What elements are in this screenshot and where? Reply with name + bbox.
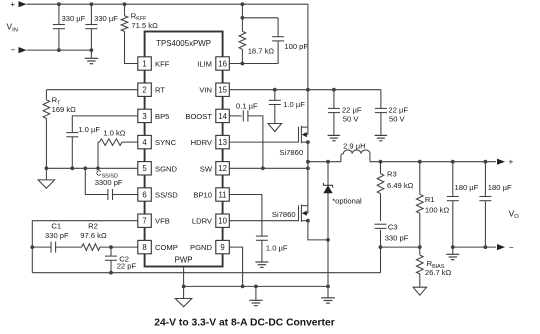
junction VIN+ rail / Cin2: [90, 2, 94, 6]
ground BP10 cap: [255, 262, 268, 267]
pin 6 box: [138, 188, 152, 201]
ground SGND: [38, 168, 55, 188]
label R3 value: [387, 181, 414, 190]
pin label ILIM: [197, 60, 212, 69]
svg-text:Si7860: Si7860: [279, 148, 303, 157]
resistor R2 97.6k: [82, 244, 138, 251]
wire RT pin2: [46, 90, 137, 100]
node VOUT- arrow: [497, 243, 514, 252]
wire inductor to output: [370, 161, 496, 163]
pin label SS/SD: [155, 191, 178, 200]
capacitor Cbulk1 22uF: [328, 90, 340, 136]
junction ILIM/RILIM: [241, 62, 245, 66]
svg-text:SGND: SGND: [155, 164, 177, 173]
label L1 2.9uH: [343, 141, 366, 150]
svg-text:HDRV: HDRV: [191, 138, 213, 147]
ground VOUT-: [446, 247, 459, 260]
inductor L1 2.9uH: [341, 150, 370, 162]
label RKFF value: [131, 21, 158, 30]
pin number 14: [218, 112, 227, 121]
pin number 9: [220, 243, 224, 252]
ground RBIAS: [413, 287, 427, 295]
op-amp U1 TPS4005xPWP body: [145, 32, 223, 267]
wire SYNC pin4: [122, 141, 138, 143]
pin 8 box: [138, 240, 152, 253]
svg-text:100 kΩ: 100 kΩ: [425, 206, 450, 215]
diode D1 Schottky optional: [323, 183, 332, 286]
junction VIN/bypass: [273, 88, 277, 92]
label RT value: [52, 105, 77, 114]
pin number 4: [142, 138, 147, 147]
pin 4 box: [138, 135, 152, 148]
label U1 PWP pad: [175, 255, 193, 264]
pin 3 box: [138, 109, 152, 122]
pin label BOOST: [185, 112, 212, 121]
label C1: [51, 221, 61, 230]
pin 15 box: [216, 83, 230, 96]
pin number 12: [218, 164, 227, 173]
wire VOUT- line: [453, 246, 496, 248]
pin 10 box: [216, 214, 230, 227]
svg-text:22 pF: 22 pF: [117, 261, 137, 270]
junction VOUT-/Cout2: [484, 245, 488, 249]
label RBIAS value: [425, 268, 452, 277]
resistor SYNC 1.0k: [98, 139, 122, 169]
label C3: [388, 223, 398, 232]
pin number 3: [142, 112, 146, 121]
svg-text:KFF: KFF: [155, 60, 170, 69]
svg-text:4: 4: [142, 138, 147, 147]
ground input rail: [85, 50, 99, 64]
node VIN- terminal: [11, 45, 27, 54]
pin 13 box: [216, 135, 230, 148]
wire BP10 pin11: [229, 195, 262, 237]
svg-text:6: 6: [142, 190, 146, 199]
label Cout1 180uF: [455, 183, 479, 192]
svg-text:169 kΩ: 169 kΩ: [52, 105, 77, 114]
svg-text:SS/SD: SS/SD: [155, 191, 178, 200]
svg-text:1.0 kΩ: 1.0 kΩ: [103, 128, 125, 137]
ground power line tap: [249, 286, 262, 305]
svg-text:−: −: [11, 45, 16, 54]
svg-text:−: −: [509, 243, 514, 252]
svg-text:8: 8: [142, 243, 146, 252]
svg-text:BP5: BP5: [155, 112, 169, 121]
label RKFF: [131, 11, 147, 22]
svg-text:BOOST: BOOST: [185, 112, 212, 121]
junction feedback/R1-RBIAS: [418, 245, 422, 249]
junction pad/ground line: [182, 285, 186, 289]
label RBIAS: [427, 259, 445, 270]
wire SW to inductor: [308, 161, 341, 163]
wire SW pin12: [229, 167, 308, 169]
svg-text:180 µF: 180 µF: [488, 183, 512, 192]
ground Cbulk2: [375, 135, 388, 140]
label RILIM 18.7k: [248, 46, 275, 55]
junction VIN/22uF-1: [332, 88, 336, 92]
label R2 value: [80, 231, 107, 240]
junction R2 / C2: [109, 245, 113, 249]
capacitor CSS/SD 3300pF: [85, 168, 138, 200]
label C2: [119, 254, 129, 263]
svg-text:3300 pF: 3300 pF: [95, 178, 123, 187]
ground PWP pad: [175, 286, 192, 306]
junction SGND/SYNCres: [96, 166, 100, 170]
svg-text:VIN: VIN: [199, 86, 212, 95]
svg-text:2: 2: [142, 86, 146, 95]
wire LDRV pin10: [229, 220, 298, 222]
label VO: [509, 208, 520, 220]
wire VIN- rail: [27, 49, 92, 51]
pin label BP5: [155, 112, 169, 121]
pin 1 box: [138, 57, 152, 70]
pin label VFB: [155, 217, 170, 226]
pin number 2: [142, 86, 146, 95]
junction output/Cout2: [484, 160, 488, 164]
junction VIN- rail / Cin2 ground: [90, 48, 94, 52]
resistor R3 6.49k: [377, 162, 384, 221]
resistor RBIAS 26.7k: [417, 247, 424, 287]
junction output/Cout1: [451, 160, 455, 164]
svg-text:71.5 kΩ: 71.5 kΩ: [131, 21, 158, 30]
wire feedback node: [381, 246, 420, 248]
svg-text:R1: R1: [425, 195, 435, 204]
junction output/R1: [418, 160, 422, 164]
pin 7 box: [138, 214, 152, 227]
svg-text:0.1 µF: 0.1 µF: [236, 102, 258, 111]
svg-text:Si7860: Si7860: [272, 210, 296, 219]
label C3 value: [385, 233, 409, 242]
svg-text:180 µF: 180 µF: [455, 183, 479, 192]
svg-text:6.49 kΩ: 6.49 kΩ: [387, 181, 414, 190]
pin 9 box: [216, 240, 230, 253]
resistor RILIM 18.7k: [239, 4, 246, 63]
svg-text:RT: RT: [155, 86, 165, 95]
pin 5 box: [138, 162, 152, 175]
label VIN: [7, 22, 18, 34]
junction SGND/RT: [45, 166, 49, 170]
junction VIN- rail / Cin1: [57, 48, 61, 52]
wire SGND row: [46, 167, 137, 169]
svg-text:12: 12: [218, 164, 227, 173]
svg-text:+: +: [10, 0, 15, 9]
label Cbulk1 50V: [343, 114, 360, 123]
wire VIN+ rail drop: [307, 4, 309, 90]
pin label HDRV: [191, 138, 213, 147]
svg-text:1.0 µF: 1.0 µF: [78, 125, 100, 134]
label Cbulk2 22uF: [388, 106, 408, 115]
wire VIN pin15 row: [229, 89, 381, 91]
wire ILIM pin16: [229, 63, 278, 65]
pin label COMP: [155, 243, 178, 252]
junction VIN+ rail / Cin1: [57, 2, 61, 6]
label Q1 Si7860: [279, 148, 303, 157]
svg-text:1: 1: [142, 59, 146, 68]
wire SW drop to Q2: [307, 162, 309, 206]
ground Cbulk1: [328, 135, 341, 140]
label CILIM 100pF: [284, 42, 308, 51]
wire VIN+ rail: [27, 3, 308, 5]
pin label SW: [200, 164, 213, 173]
svg-text:TPS4005xPWP: TPS4005xPWP: [156, 39, 211, 48]
junction output/R3: [379, 160, 383, 164]
svg-text:330 pF: 330 pF: [45, 231, 69, 240]
capacitor Cout2 180uF: [479, 162, 491, 247]
junction SW pin row: [306, 166, 310, 170]
wire BP5 pin3: [72, 116, 138, 133]
capacitor C3 330pF: [375, 224, 387, 247]
svg-text:26.7 kΩ: 26.7 kΩ: [425, 268, 452, 277]
capacitor Cbulk2 22uF: [375, 90, 387, 136]
wire PWP pad: [183, 267, 185, 287]
wire power ground line: [184, 285, 328, 287]
capacitor BP5 1.0uF: [66, 133, 78, 169]
svg-text:10: 10: [218, 217, 227, 226]
capacitor BOOST 0.1uF: [243, 110, 263, 168]
pin number 1: [142, 59, 146, 68]
junction VIN/raildrop: [306, 88, 310, 92]
svg-text:13: 13: [218, 138, 227, 147]
svg-text:330 µF: 330 µF: [94, 14, 118, 23]
svg-text:97.6 kΩ: 97.6 kΩ: [80, 231, 107, 240]
svg-text:5: 5: [142, 164, 147, 173]
pin label RT: [155, 86, 165, 95]
pin label LDRV: [192, 217, 213, 226]
label BP5 cap 1.0uF: [78, 125, 100, 134]
node VIN+ terminal: [10, 0, 26, 9]
junction C3/feedback node: [379, 245, 383, 249]
svg-text:11: 11: [219, 190, 227, 199]
capacitor CILIM 100pF: [272, 18, 284, 64]
label Q2 Si7860: [272, 210, 296, 219]
capacitor Cout1 180uF: [447, 162, 459, 247]
label Cin1 330uF: [62, 14, 86, 23]
pin number 16: [218, 59, 227, 68]
label CSS/SD: [96, 169, 118, 180]
capacitor VIN bypass 1.0uF: [269, 90, 281, 124]
wire VFB pin7: [32, 221, 138, 273]
transistor Q1 Si7860 high-side: [299, 126, 310, 144]
label R1: [425, 195, 435, 204]
wire Q1 source to SW node: [307, 142, 309, 162]
ground FET source: [321, 286, 335, 303]
junction diode/SW line: [326, 160, 330, 164]
label C2 value: [117, 261, 137, 270]
label R2: [88, 221, 98, 230]
junction C2 / feedback line: [109, 271, 113, 275]
svg-text:22 µF: 22 µF: [388, 106, 408, 115]
transistor Q2 Si7860 low-side: [299, 204, 310, 222]
label R3: [387, 170, 397, 179]
junction RILIM/100pF top: [241, 16, 245, 20]
capacitor Cin2 330uF: [85, 4, 97, 50]
label U1 TPS4005xPWP: [156, 39, 211, 48]
junction FET-source/ground line: [326, 285, 330, 289]
label BOOST cap 0.1uF: [236, 102, 258, 111]
pin label SYNC: [155, 138, 177, 147]
svg-text:BP10: BP10: [193, 191, 212, 200]
capacitor C2 22pF: [105, 247, 117, 273]
svg-text:9: 9: [220, 243, 224, 252]
svg-text:PWP: PWP: [175, 255, 193, 264]
junction VIN+ rail / RKFF: [123, 2, 127, 6]
svg-text:50 V: 50 V: [343, 114, 360, 123]
svg-text:7: 7: [142, 217, 146, 226]
junction SGND/CSS: [83, 166, 87, 170]
svg-text:LDRV: LDRV: [192, 217, 213, 226]
svg-text:*optional: *optional: [332, 196, 362, 205]
pin number 6: [142, 190, 146, 199]
capacitor BP10 1.0uF: [256, 236, 268, 262]
svg-text:50 V: 50 V: [389, 114, 406, 123]
junction VIN+ rail / RILIM: [241, 2, 245, 6]
svg-text:15: 15: [218, 86, 227, 95]
wire HDRV pin13: [229, 141, 298, 143]
label R1 value: [425, 206, 450, 215]
junction VFB-left / C1 row: [30, 245, 34, 249]
svg-text:100 pF: 100 pF: [284, 42, 308, 51]
pin 2 box: [138, 83, 152, 96]
svg-text:1.0 µF: 1.0 µF: [283, 100, 305, 109]
pin number 10: [218, 217, 227, 226]
pin 11 box: [216, 188, 230, 201]
junction SGND/BP5cap: [70, 166, 74, 170]
resistor R1 100k: [417, 162, 424, 247]
junction Q2 source/diode: [326, 238, 330, 242]
wire Q1 drain to VIN: [307, 90, 309, 127]
pin number 8: [142, 243, 146, 252]
wire 100pF top: [242, 17, 278, 19]
label VIN bypass 1.0uF: [283, 100, 305, 109]
label Cout2 180uF: [488, 183, 512, 192]
pin 16 box: [216, 57, 230, 70]
junction VOUT-/Cout1 ground: [451, 245, 455, 249]
wire feedback line: [32, 247, 380, 273]
svg-text:COMP: COMP: [155, 243, 178, 252]
node VOUT+ arrow: [497, 157, 514, 166]
label diode optional: [332, 196, 362, 205]
wire diode top: [327, 162, 329, 186]
svg-text:3: 3: [142, 112, 146, 121]
pin 12 box: [216, 162, 230, 175]
label Cbulk2 50V: [389, 114, 406, 123]
label BP10 cap 1.0uF: [266, 244, 288, 253]
junction SW/inductor line: [306, 160, 310, 164]
pin number 15: [218, 86, 227, 95]
pin label VIN: [199, 86, 212, 95]
label CSS value 3300pF: [95, 178, 123, 187]
svg-text:R3: R3: [387, 170, 397, 179]
junction PGND/ground line: [241, 285, 245, 289]
pin number 7: [142, 217, 146, 226]
pin number 5: [142, 164, 147, 173]
svg-text:2.9 µH: 2.9 µH: [343, 141, 366, 150]
svg-text:18.7 kΩ: 18.7 kΩ: [248, 46, 275, 55]
svg-text:+: +: [509, 157, 514, 166]
resistor RT 169k: [43, 100, 50, 169]
ground VIN bypass: [268, 124, 282, 132]
svg-text:1.0 µF: 1.0 µF: [266, 244, 288, 253]
pin label PGND: [190, 243, 212, 252]
svg-text:ILIM: ILIM: [197, 60, 212, 69]
svg-text:24-V to 3.3-V at 8-A DC-DC Con: 24-V to 3.3-V at 8-A DC-DC Converter: [154, 318, 334, 329]
label Cbulk1 22uF: [342, 106, 362, 115]
label RT: [52, 96, 61, 107]
svg-text:SYNC: SYNC: [155, 138, 177, 147]
capacitor C1 330pF: [32, 242, 81, 253]
title caption: [154, 318, 334, 329]
svg-text:330 µF: 330 µF: [62, 14, 86, 23]
wire Q2 source to ground jog: [308, 221, 328, 240]
svg-text:22 µF: 22 µF: [342, 106, 362, 115]
wire BOOST pin14: [229, 115, 241, 117]
svg-text:SW: SW: [200, 164, 213, 173]
svg-text:PGND: PGND: [190, 243, 212, 252]
pin number 11: [219, 190, 227, 199]
label SYNC res 1.0k: [103, 128, 125, 137]
junction SW/boost cap: [261, 166, 265, 170]
junction ground tap: [254, 285, 258, 289]
pin label KFF: [155, 60, 170, 69]
capacitor Cin1 330uF: [53, 4, 65, 50]
label C1 value: [45, 231, 69, 240]
svg-text:330 pF: 330 pF: [385, 233, 409, 242]
label Cin2 330uF: [94, 14, 118, 23]
svg-text:16: 16: [218, 59, 227, 68]
svg-text:R2: R2: [88, 221, 98, 230]
pin label BP10: [193, 191, 212, 200]
pin 14 box: [216, 109, 230, 122]
svg-text:C1: C1: [51, 221, 61, 230]
resistor RKFF: [121, 4, 138, 63]
svg-text:VFB: VFB: [155, 217, 170, 226]
pin label SGND: [155, 164, 177, 173]
pin number 13: [218, 138, 227, 147]
svg-text:C3: C3: [388, 223, 398, 232]
wire PGND pin9: [229, 247, 242, 286]
svg-text:14: 14: [218, 112, 227, 121]
